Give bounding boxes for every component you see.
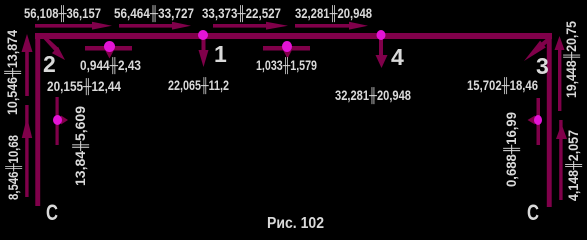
flow arrow segment C-2 top1 bbox=[35, 24, 92, 28]
svg-text:8,546╫10,68: 8,546╫10,68 bbox=[5, 135, 23, 200]
branch bar A bbox=[85, 46, 132, 51]
svg-text:4: 4 bbox=[391, 44, 404, 70]
left branch arrowhead right bbox=[61, 116, 68, 125]
svg-text:33,373╫22,527: 33,373╫22,527 bbox=[202, 5, 281, 23]
svg-text:15,702╫18,46: 15,702╫18,46 bbox=[467, 77, 538, 95]
svg-text:С: С bbox=[46, 200, 58, 225]
svg-text:13,84╫5,609: 13,84╫5,609 bbox=[72, 106, 90, 186]
svg-text:4,148╫2,057: 4,148╫2,057 bbox=[565, 130, 583, 201]
right outer flow arrow upper bbox=[558, 48, 561, 111]
node dot 1 bbox=[198, 30, 208, 40]
wire top main bbox=[35, 33, 552, 39]
svg-text:19,448╫20,75: 19,448╫20,75 bbox=[563, 21, 581, 98]
svg-text:1,033╫1,579: 1,033╫1,579 bbox=[256, 57, 317, 75]
wire left edge bbox=[35, 33, 40, 206]
node dot right branch bbox=[534, 115, 542, 125]
svg-text:20,155╫12,44: 20,155╫12,44 bbox=[47, 78, 121, 96]
svg-text:0,688╫16,99: 0,688╫16,99 bbox=[503, 112, 521, 187]
branch arrow B down bbox=[283, 50, 292, 59]
left outer flow arrow lower bbox=[25, 105, 28, 197]
branch arrow A down bbox=[105, 50, 114, 59]
node dot left branch bbox=[53, 115, 62, 125]
branch bar B bbox=[263, 46, 310, 51]
svg-text:10,546╫13,874: 10,546╫13,874 bbox=[4, 30, 22, 115]
svg-text:22,065╫11,2: 22,065╫11,2 bbox=[168, 77, 229, 95]
right branch arrowhead left bbox=[528, 116, 536, 125]
node 1 down arrow bbox=[202, 39, 206, 52]
left outer flow arrow upper bbox=[25, 48, 29, 96]
flow arrow segment x-4 top4 bbox=[295, 24, 349, 28]
node dot 4 bbox=[377, 30, 386, 40]
svg-text:32,281╫20,948: 32,281╫20,948 bbox=[335, 87, 411, 105]
node 4 down arrow bbox=[379, 39, 383, 57]
svg-text:С: С bbox=[527, 200, 539, 225]
right outer flow arrow lower bbox=[559, 120, 562, 200]
flow arrow segment 1-x top3 bbox=[213, 24, 266, 28]
left inner branch line bbox=[56, 97, 59, 145]
svg-text:Рис. 102: Рис. 102 bbox=[267, 215, 324, 232]
svg-text:32,281╫20,948: 32,281╫20,948 bbox=[295, 5, 372, 23]
svg-text:2: 2 bbox=[43, 51, 56, 77]
flow arrow segment 2-1 top2 bbox=[119, 24, 172, 28]
node dot branch A bbox=[104, 41, 115, 52]
svg-text:56,464╫33,727: 56,464╫33,727 bbox=[114, 5, 194, 23]
svg-text:56,108╫36,157: 56,108╫36,157 bbox=[24, 5, 101, 23]
svg-text:1: 1 bbox=[214, 41, 227, 67]
node dot branch B bbox=[282, 41, 292, 52]
svg-text:3: 3 bbox=[536, 53, 549, 79]
wire right edge bbox=[547, 33, 552, 207]
right inner branch line bbox=[537, 98, 541, 145]
diagonal arrow at node 3 bbox=[538, 37, 551, 49]
svg-text:0,944╫2,43: 0,944╫2,43 bbox=[80, 57, 141, 75]
diagonal arrow at node 2 bbox=[40, 35, 59, 52]
